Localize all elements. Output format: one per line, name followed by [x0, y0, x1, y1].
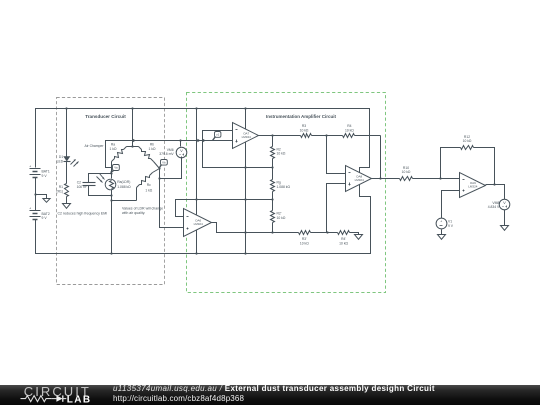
svg-text:+: +: [440, 220, 442, 224]
svg-text:LAB: LAB: [67, 395, 92, 405]
svg-text:10 kΩ: 10 kΩ: [277, 216, 286, 220]
svg-text:9 V: 9 V: [448, 224, 454, 228]
svg-text:R1: R1: [59, 185, 63, 189]
svg-text:10 kΩ: 10 kΩ: [402, 170, 411, 174]
svg-text:R2: R2: [277, 147, 281, 151]
svg-text:Instrumentation Amplifier Circ: Instrumentation Amplifier Circuit: [266, 114, 337, 119]
svg-text:LM324: LM324: [194, 222, 204, 226]
svg-text:u1135374umail.usq.edu.au / Ext: u1135374umail.usq.edu.au / External dust…: [113, 384, 435, 393]
svg-text:Rb: Rb: [150, 143, 154, 147]
svg-text:1 kΩ: 1 kΩ: [149, 147, 156, 151]
svg-text:Rc: Rc: [147, 183, 151, 187]
svg-text:100 nF: 100 nF: [77, 185, 87, 189]
svg-text:Vb: Vb: [162, 161, 166, 165]
svg-text:Air Champer: Air Champer: [85, 144, 105, 148]
svg-text:R2': R2': [277, 212, 282, 216]
svg-text:R3': R3': [302, 237, 307, 241]
svg-text:+: +: [29, 207, 31, 211]
svg-text:9 V: 9 V: [42, 216, 48, 220]
svg-text:Transducer Circuit: Transducer Circuit: [85, 114, 126, 119]
svg-text:9 V: 9 V: [42, 174, 48, 178]
svg-text:LM324: LM324: [242, 135, 252, 139]
svg-text:R4': R4': [341, 237, 346, 241]
svg-text:10 kΩ: 10 kΩ: [277, 152, 286, 156]
svg-text:LED: LED: [57, 160, 64, 164]
svg-text:(R1): (R1): [56, 189, 63, 193]
svg-text:1.088 kΩ: 1.088 kΩ: [277, 185, 291, 189]
svg-text:BAT1: BAT1: [42, 170, 50, 174]
svg-text:V1: V1: [448, 220, 452, 224]
svg-text:Ra: Ra: [111, 143, 115, 147]
svg-text:1.088 kΩ: 1.088 kΩ: [117, 185, 131, 189]
svg-text:10 kΩ: 10 kΩ: [345, 128, 354, 132]
svg-text:LM324: LM324: [468, 185, 478, 189]
svg-text:v1: v1: [216, 133, 219, 137]
svg-text:BAT2: BAT2: [42, 212, 50, 216]
svg-text:Va: Va: [114, 166, 118, 170]
svg-text:http://circuitlab.com/cbz8af4d: http://circuitlab.com/cbz8af4d8p368: [113, 394, 245, 403]
svg-text:C2: C2: [77, 180, 81, 184]
svg-text:LM324: LM324: [355, 178, 365, 182]
svg-text:4.834 V: 4.834 V: [488, 205, 500, 209]
svg-text:10 kΩ: 10 kΩ: [300, 128, 309, 132]
svg-text:D1: D1: [59, 155, 63, 159]
svg-text:1 kΩ: 1 kΩ: [110, 147, 117, 151]
svg-text:V: V: [503, 200, 506, 205]
svg-text:1 kΩ: 1 kΩ: [145, 188, 152, 192]
svg-text:V: V: [180, 148, 183, 153]
svg-text:C2 reduces high frequency EMI: C2 reduces high frequency EMI: [58, 211, 108, 215]
svg-text:10 kΩ: 10 kΩ: [300, 242, 309, 246]
svg-text:10 kΩ: 10 kΩ: [463, 139, 472, 143]
svg-text:Rg: Rg: [277, 181, 281, 185]
svg-text:+: +: [29, 164, 31, 168]
svg-text:with air quality.: with air quality.: [122, 211, 145, 215]
svg-text:Values of LDR will change: Values of LDR will change: [122, 207, 163, 211]
svg-text:379.8 mV: 379.8 mV: [159, 152, 174, 156]
svg-text:Ra(LDR): Ra(LDR): [117, 180, 130, 184]
svg-text:10 kΩ: 10 kΩ: [339, 242, 348, 246]
